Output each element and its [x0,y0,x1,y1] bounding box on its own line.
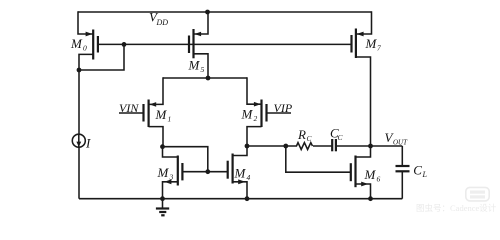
label M4 [234,166,251,183]
node M6 gate tap dot [283,144,288,149]
transistor M5 gate bar [188,36,190,54]
wire M0 drain down to current source [78,70,80,134]
node ground rail dot M4 [245,196,250,201]
transistor M4 source arrow (NMOS) [238,179,245,184]
wire M4 drain lead up [233,146,247,156]
wire current source to ground rail [78,147,80,199]
wire M7 source lead from VDD rail [356,11,372,34]
wire M2 drain lead down [247,127,262,146]
transistor M6 channel bar [354,156,356,188]
svg-text:OUT: OUT [393,139,408,147]
label RC [297,127,313,143]
label CL [413,163,427,179]
label CC [330,126,344,143]
wire mirror diode connection to M3/M4 gates [163,147,208,172]
svg-text:M: M [364,167,377,182]
label VIP [274,101,293,115]
wire M1 drain lead down [149,127,163,147]
wire M7 drain lead down to VOUT [356,57,371,146]
label VOUT [385,130,409,147]
wire M0 drain lead [79,54,93,70]
svg-text:2: 2 [254,114,258,123]
resistor RC zigzag [297,143,313,150]
node first stage left dot (M1 drain / M3 drain) [160,144,165,149]
svg-text:6: 6 [377,174,381,183]
svg-text:M: M [188,58,201,73]
wire VIP input to M2 gate [267,112,292,114]
svg-text:7: 7 [377,44,381,53]
label M2 [241,107,258,124]
svg-text:1: 1 [168,115,172,124]
wire M5 source lead to VDD [194,12,209,34]
ground symbol [156,199,169,216]
node VOUT dot [368,144,373,149]
wire M6 gate riser and lead [286,146,351,172]
transistor M2 source arrow (PMOS) [254,102,261,107]
wire M3 gate to M4 gate [182,171,227,173]
transistor M6 source arrow (NMOS) [361,182,368,187]
node VDD junction dot at M5 source [205,10,210,15]
capacitor CL top plate [396,165,410,167]
label M6 [364,167,381,183]
label VIN [119,101,139,115]
wire M5 drain lead down to tail [194,54,209,78]
transistor M6 gate bar [350,163,352,181]
watermark badge [466,187,489,201]
capacitor CC right plate [335,139,337,151]
svg-text:M: M [234,166,247,181]
transistor M1 channel bar [148,100,150,128]
transistor M2 gate bar [265,104,267,122]
wire M6 source lead to ground [356,184,371,199]
node ground rail dot M3 [160,196,165,201]
transistor M5 channel bar [192,29,194,58]
transistor M4 gate bar [227,161,229,179]
transistor M5 source arrow (PMOS) [194,32,201,37]
wire ground rail [79,198,402,200]
wire diff pair tail line [163,77,247,79]
wire VDD top rail [78,11,372,13]
svg-text:5: 5 [201,65,205,74]
transistor M3 gate bar [181,163,183,180]
label M0 [70,36,87,53]
wire M0 diode connection drain to gate [79,44,124,70]
wire CL to ground rail [401,171,403,198]
label M1 [155,107,172,124]
transistor M7 channel bar [355,29,357,59]
transistor M4 channel bar [232,154,234,184]
wire VIN input to M1 gate [119,112,144,114]
label M3 [157,165,174,182]
transistor M0 gate bar [97,36,99,53]
svg-text:VIP: VIP [274,101,293,115]
wire Rc to Cc [313,145,332,147]
wire M6 drain lead up to VOUT [356,146,371,157]
transistor M7 source arrow (PMOS) [357,32,364,37]
transistor M7 gate bar [350,35,352,53]
svg-text:C: C [413,163,422,178]
transistor M3 channel bar [177,156,179,186]
svg-text:I: I [85,136,91,151]
watermark text [416,203,497,213]
svg-text:M: M [365,36,378,51]
svg-text:M: M [70,36,83,51]
wire M3 drain lead up [163,147,178,157]
svg-text:M: M [157,165,170,180]
wire M4 source lead to ground [233,182,247,199]
wire M1 source riser and lead [149,77,163,104]
wire Cc to VOUT node [336,145,402,147]
node bias line junction dot [122,42,127,47]
svg-text:R: R [297,127,306,142]
svg-text:4: 4 [247,173,251,182]
node M3/M4 gate line dot [205,169,210,174]
svg-text:3: 3 [169,173,174,182]
node first stage right dot (M2/M4 drains, comp node) [245,144,250,149]
svg-text:M: M [155,107,168,122]
capacitor CL bottom plate [396,170,410,172]
transistor M0 channel bar [92,30,94,60]
wire left VDD riser to M0 source [78,11,93,34]
wire comp node to Rc [247,145,297,147]
label VDD [149,10,168,28]
transistor M1 source arrow (PMOS) [149,102,156,107]
transistor M0 source arrow (PMOS) [86,32,93,37]
wire M3 source lead to ground [163,182,178,199]
transistor M3 source arrow (NMOS) [164,179,171,184]
capacitor CC left plate [331,139,333,151]
label I [85,136,91,151]
svg-text:M: M [241,107,254,122]
svg-text:DD: DD [156,18,169,27]
wire VOUT to CL [401,146,403,166]
node ground rail dot M6 [368,196,373,201]
svg-text:VIN: VIN [119,101,139,115]
label M5 [188,58,205,75]
wire bias line M0 gate to M5 gate to M7 gate [98,43,352,45]
transistor M2 channel bar [260,100,262,128]
svg-text:0: 0 [83,44,87,53]
current source I circle [72,134,85,147]
label M7 [365,36,382,53]
node M0 drain junction dot [77,68,82,73]
node diff pair tail dot [206,76,211,81]
wire M2 source riser and lead [247,77,262,104]
transistor M1 gate bar [142,104,144,122]
svg-text:L: L [422,170,428,179]
svg-text:图虫号：Cadence设计: 图虫号：Cadence设计 [416,203,497,213]
